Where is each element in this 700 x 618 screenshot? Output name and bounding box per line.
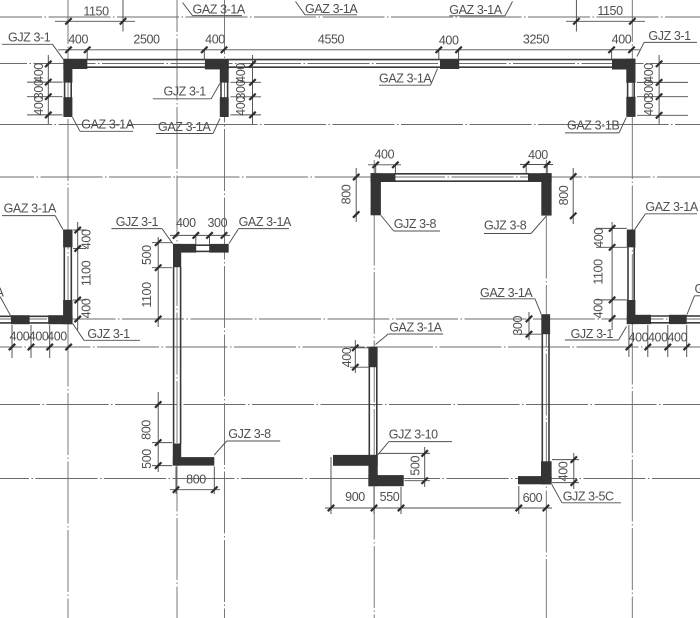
svg-text:400: 400	[80, 298, 94, 318]
wire bottom 600 dim	[518, 486, 520, 514]
grid axis horizontal G	[0, 404, 700, 406]
svg-text:400: 400	[667, 331, 687, 345]
column GJZ 3-8 U-element left L	[371, 173, 396, 182]
column left-edge element top stub	[63, 230, 72, 248]
wire TL right vertical chain 400/300/400	[252, 55, 254, 124]
svg-text:GJZ 3-1: GJZ 3-1	[571, 327, 614, 341]
column GJZ 3-5C L block	[541, 461, 552, 484]
wire top wall lower edge	[63, 66, 634, 68]
svg-text:4550: 4550	[318, 32, 345, 46]
wire mid element left chain 800/500	[157, 392, 159, 472]
column GJZ 3-10 Z block	[333, 455, 378, 466]
wire U-element left 800 dim	[355, 168, 357, 222]
svg-text:GAZ 3-1A: GAZ 3-1A	[480, 286, 533, 300]
column left-edge element bottom-left stub	[11, 315, 30, 324]
grid axis horizontal F	[0, 346, 700, 348]
svg-text:3250: 3250	[523, 32, 550, 46]
svg-text:800: 800	[186, 472, 206, 486]
svg-text:800: 800	[340, 184, 354, 204]
wire GJZ3-10 right 500 dim	[424, 447, 426, 487]
column right-mid element corner	[627, 300, 636, 324]
svg-text:400: 400	[47, 329, 67, 343]
svg-text:400: 400	[528, 148, 548, 162]
svg-text:2500: 2500	[133, 32, 160, 46]
column right-mid element bottom-right stub	[669, 315, 687, 324]
svg-text:800: 800	[140, 420, 154, 440]
svg-text:400: 400	[68, 32, 88, 46]
grid axis horizontal C	[0, 124, 700, 126]
grid axis horizontal A (top dim line level)	[0, 16, 700, 18]
column left-edge element corner	[63, 300, 72, 324]
grid axis horizontal B (top wall centerline)	[0, 63, 700, 65]
column top-right lower stub	[626, 97, 635, 117]
wire U element top wall edges	[394, 173, 529, 175]
column GAZ 3-1A block on top wall	[440, 59, 459, 69]
wire TR right vertical chain 400/300/400	[658, 55, 660, 124]
wire right-mid element left chain 400/1100/400	[611, 222, 613, 330]
column GAZ 3-1A stub above GJZ3-10	[368, 347, 377, 368]
svg-text:GJZ 3-1: GJZ 3-1	[8, 30, 51, 44]
grid axis vertical 5	[545, 160, 547, 618]
svg-text:400: 400	[176, 216, 196, 230]
wire GJZ3-10 wall edges	[368, 367, 370, 456]
svg-text:400: 400	[439, 33, 459, 47]
svg-text:400: 400	[556, 461, 570, 481]
grid axis horizontal D	[0, 176, 700, 178]
wire U-element right 800 dim	[572, 168, 574, 224]
svg-text:500: 500	[140, 245, 154, 265]
wire left-edge element right chain 400/1100/400	[77, 222, 79, 330]
svg-text:400: 400	[205, 32, 225, 46]
svg-text:GJZ 3-1: GJZ 3-1	[116, 215, 159, 229]
wire mid element bottom 800 dim	[170, 489, 220, 491]
svg-text:400: 400	[374, 147, 394, 161]
wire mid element top bar wall edges in gap	[196, 244, 210, 246]
wire TL right bar wall edges in gap	[220, 82, 222, 98]
svg-text:GAZ 3-1A: GAZ 3-1A	[379, 72, 432, 86]
svg-text:400: 400	[629, 331, 649, 345]
svg-text:550: 550	[380, 490, 400, 504]
svg-text:400: 400	[648, 331, 668, 345]
wire right-mid element vertical wall edges	[627, 247, 629, 301]
svg-text:1100: 1100	[592, 259, 606, 285]
svg-text:300: 300	[511, 316, 525, 336]
grid axis vertical 4	[373, 160, 375, 618]
wire GJZ3-5C right 400 dim	[573, 453, 575, 489]
svg-text:GJZ 3-10: GJZ 3-10	[389, 428, 438, 442]
svg-text:400: 400	[234, 63, 248, 83]
wire U-element right 400 dim	[520, 164, 553, 166]
wire U-element left 400 dim	[368, 164, 401, 166]
column top-left lower stub	[63, 97, 72, 117]
svg-text:GAZ 3-1A: GAZ 3-1A	[449, 3, 502, 17]
grid axis vertical 3	[224, 0, 226, 618]
column top element right lower stub	[220, 97, 229, 117]
svg-text:GA: GA	[695, 282, 700, 296]
svg-text:GAZ 3-1A: GAZ 3-1A	[239, 215, 292, 229]
grid axis horizontal H	[0, 478, 700, 480]
wire top wall upper edge	[63, 59, 634, 61]
grid axis vertical 6	[631, 0, 633, 618]
svg-text:1150: 1150	[83, 4, 109, 18]
wire left-edge element vertical wall edges	[63, 247, 65, 301]
svg-text:400: 400	[592, 298, 606, 318]
svg-text:400: 400	[340, 347, 354, 367]
wire left-edge element horizontal wall edges	[0, 315, 49, 317]
column GJZ 3-1 top-right corner block	[612, 59, 636, 70]
wire dim line 1150 right	[566, 20, 645, 22]
svg-text:400: 400	[32, 96, 46, 116]
wire bottom 900/550 dim	[325, 507, 552, 509]
wire TR right bar wall edges in gap	[627, 82, 629, 97]
grid axis vertical 1	[67, 0, 69, 618]
wire top dimension chain line	[58, 49, 640, 51]
svg-text:400: 400	[592, 228, 606, 248]
wire TL left vertical chain 400/300/400	[47, 55, 49, 124]
svg-text:500: 500	[140, 449, 154, 469]
svg-text:GAZ 3-1B: GAZ 3-1B	[567, 119, 619, 133]
svg-text:400: 400	[80, 229, 94, 249]
svg-text:1150: 1150	[597, 4, 623, 18]
svg-text:400: 400	[642, 96, 656, 116]
svg-text:400: 400	[234, 96, 248, 116]
grid axis vertical 2	[176, 0, 178, 618]
wire left-edge element bottom 400x3 chain	[11, 325, 13, 358]
svg-text:500: 500	[409, 456, 423, 476]
svg-text:GJZ 3-1: GJZ 3-1	[164, 85, 207, 99]
wire GJZ3-5C left 300 dim	[528, 312, 530, 340]
svg-text:1100: 1100	[80, 260, 94, 286]
svg-text:GAZ 3-1A: GAZ 3-1A	[645, 200, 698, 214]
column GJZ 3-8 mid element bottom L	[173, 444, 181, 466]
wire mid element left chain 500/1100	[157, 237, 159, 327]
svg-text:GJZ 3-8: GJZ 3-8	[228, 427, 271, 441]
svg-text:1100: 1100	[140, 282, 154, 308]
wire TL left bar wall edges in gap	[64, 82, 66, 98]
svg-text:GAZ 3-1A: GAZ 3-1A	[305, 2, 358, 16]
wire GJZ3-5C wall edges	[541, 334, 543, 462]
svg-text:GJZ 3-5C: GJZ 3-5C	[563, 490, 614, 504]
svg-text:GJZ 3-8: GJZ 3-8	[394, 217, 437, 231]
svg-text:400: 400	[10, 329, 30, 343]
svg-text:GAZ 3-1A: GAZ 3-1A	[81, 118, 134, 132]
wire mid element 400/300 dim	[170, 234, 230, 236]
svg-text:GAZ 3-1A: GAZ 3-1A	[389, 321, 442, 335]
svg-text:GAZ 3-1A: GAZ 3-1A	[193, 3, 246, 17]
svg-text:GJZ 3-1: GJZ 3-1	[648, 29, 691, 43]
svg-text:GAZ 3-1A: GAZ 3-1A	[158, 120, 211, 134]
svg-text:300: 300	[207, 216, 227, 230]
column GJZ 3-1 top-left corner block	[63, 59, 87, 69]
svg-text:GJZ 3-1: GJZ 3-1	[87, 327, 130, 341]
column GJZ 3-1 mid element top bar	[173, 244, 196, 253]
column GJZ 3-8 U-element right L	[528, 173, 552, 182]
column mid element leg top	[173, 244, 181, 267]
wire GJZ3-10 top 400 dim	[354, 340, 356, 373]
svg-text:400: 400	[29, 329, 49, 343]
grid axis horizontal E	[0, 318, 700, 320]
svg-text:400: 400	[612, 32, 632, 46]
svg-text:GJZ 3-8: GJZ 3-8	[484, 219, 527, 233]
column GAZ 3-1A stub above GJZ3-5C	[541, 314, 550, 334]
svg-text:800: 800	[557, 185, 571, 205]
column GJZ 3-1 top element right corner block	[205, 59, 229, 69]
wire mid element leg wall edges	[173, 267, 175, 444]
svg-text:GAZ 3-1A: GAZ 3-1A	[4, 202, 57, 216]
column right-mid element top stub	[627, 230, 636, 248]
svg-text:900: 900	[345, 490, 365, 504]
wire right-mid element horizontal wall edges	[650, 315, 670, 317]
wire dim line 1150 left	[55, 20, 135, 22]
svg-text:600: 600	[523, 491, 543, 505]
wire right-mid element bottom 400x3 chain	[628, 325, 630, 357]
